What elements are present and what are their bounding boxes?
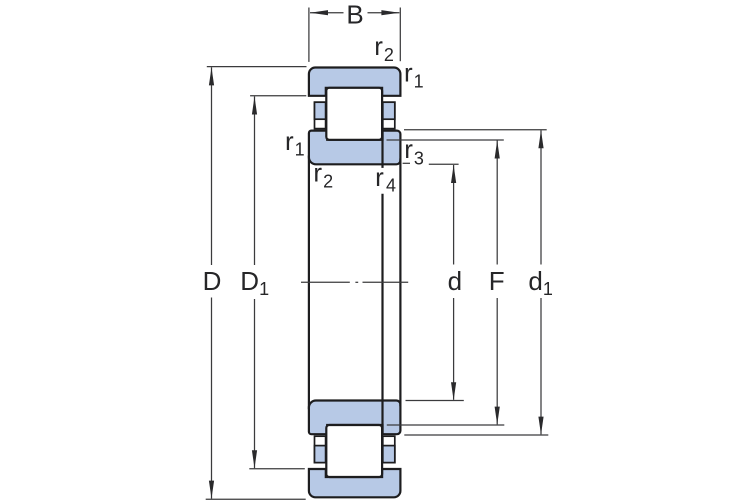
dimension F extension lines bbox=[387, 140, 505, 425]
svg-text:F: F bbox=[489, 266, 505, 296]
cage left rail (lower) bbox=[315, 446, 326, 463]
dimension d1 line bbox=[540, 130, 542, 434]
dimension D extension lines bbox=[206, 67, 307, 500]
bore silhouette line (left edge) bbox=[308, 156, 310, 410]
inner ring with loose flange (upper) bbox=[309, 131, 401, 165]
loose flange joint leader stub above r4 bbox=[381, 164, 383, 168]
cage right rail (lower) bbox=[383, 446, 395, 463]
dimension D1 line bbox=[254, 96, 256, 468]
dimension d1 extension lines bbox=[404, 130, 548, 435]
loose flange joint line (upper) bbox=[381, 131, 383, 165]
dimension d extension lines bbox=[406, 164, 464, 400]
svg-text:D: D bbox=[203, 266, 222, 296]
r3 leader dash bbox=[403, 162, 410, 164]
dimension D line bbox=[211, 67, 213, 498]
dimension d line bbox=[453, 165, 455, 400]
dimension F line bbox=[496, 141, 498, 425]
inner ring with loose flange (lower) bbox=[309, 401, 401, 435]
outside-diameter silhouette line (right edge) bbox=[399, 159, 401, 407]
roller (upper) bbox=[326, 88, 382, 140]
cage left pocket (lower) bbox=[315, 436, 326, 462]
dimension F arrowheads bbox=[495, 141, 500, 159]
cage left rail (upper) bbox=[315, 102, 326, 119]
dimension D1 extension lines bbox=[249, 96, 306, 469]
dimension d1 arrowheads bbox=[538, 130, 543, 148]
cage left pocket (upper) bbox=[315, 102, 326, 128]
centre axis dash-dot line bbox=[301, 281, 408, 283]
svg-text:d: d bbox=[448, 266, 462, 296]
dimension D1 arrowheads bbox=[252, 97, 257, 115]
dimension D arrowheads bbox=[209, 67, 214, 85]
svg-text:B: B bbox=[346, 0, 363, 29]
cage right pocket (upper) bbox=[383, 102, 395, 128]
loose flange joint line (lower) bbox=[381, 401, 383, 435]
cage right rail (upper) bbox=[383, 102, 395, 119]
dimension d arrowheads bbox=[451, 165, 456, 183]
dimension B line bbox=[310, 12, 399, 14]
bearing section, lower half (mirrored) bbox=[309, 401, 401, 498]
outer ring (upper) bbox=[309, 68, 401, 96]
cage right pocket (lower) bbox=[383, 436, 395, 462]
bearing section, upper half bbox=[309, 68, 401, 165]
roller (lower) bbox=[326, 425, 382, 477]
dimension B extension lines bbox=[309, 8, 400, 62]
outer ring (lower) bbox=[309, 469, 401, 497]
loose flange joint line between halves (below r4) bbox=[381, 194, 383, 401]
dimension B arrowheads bbox=[310, 10, 328, 15]
